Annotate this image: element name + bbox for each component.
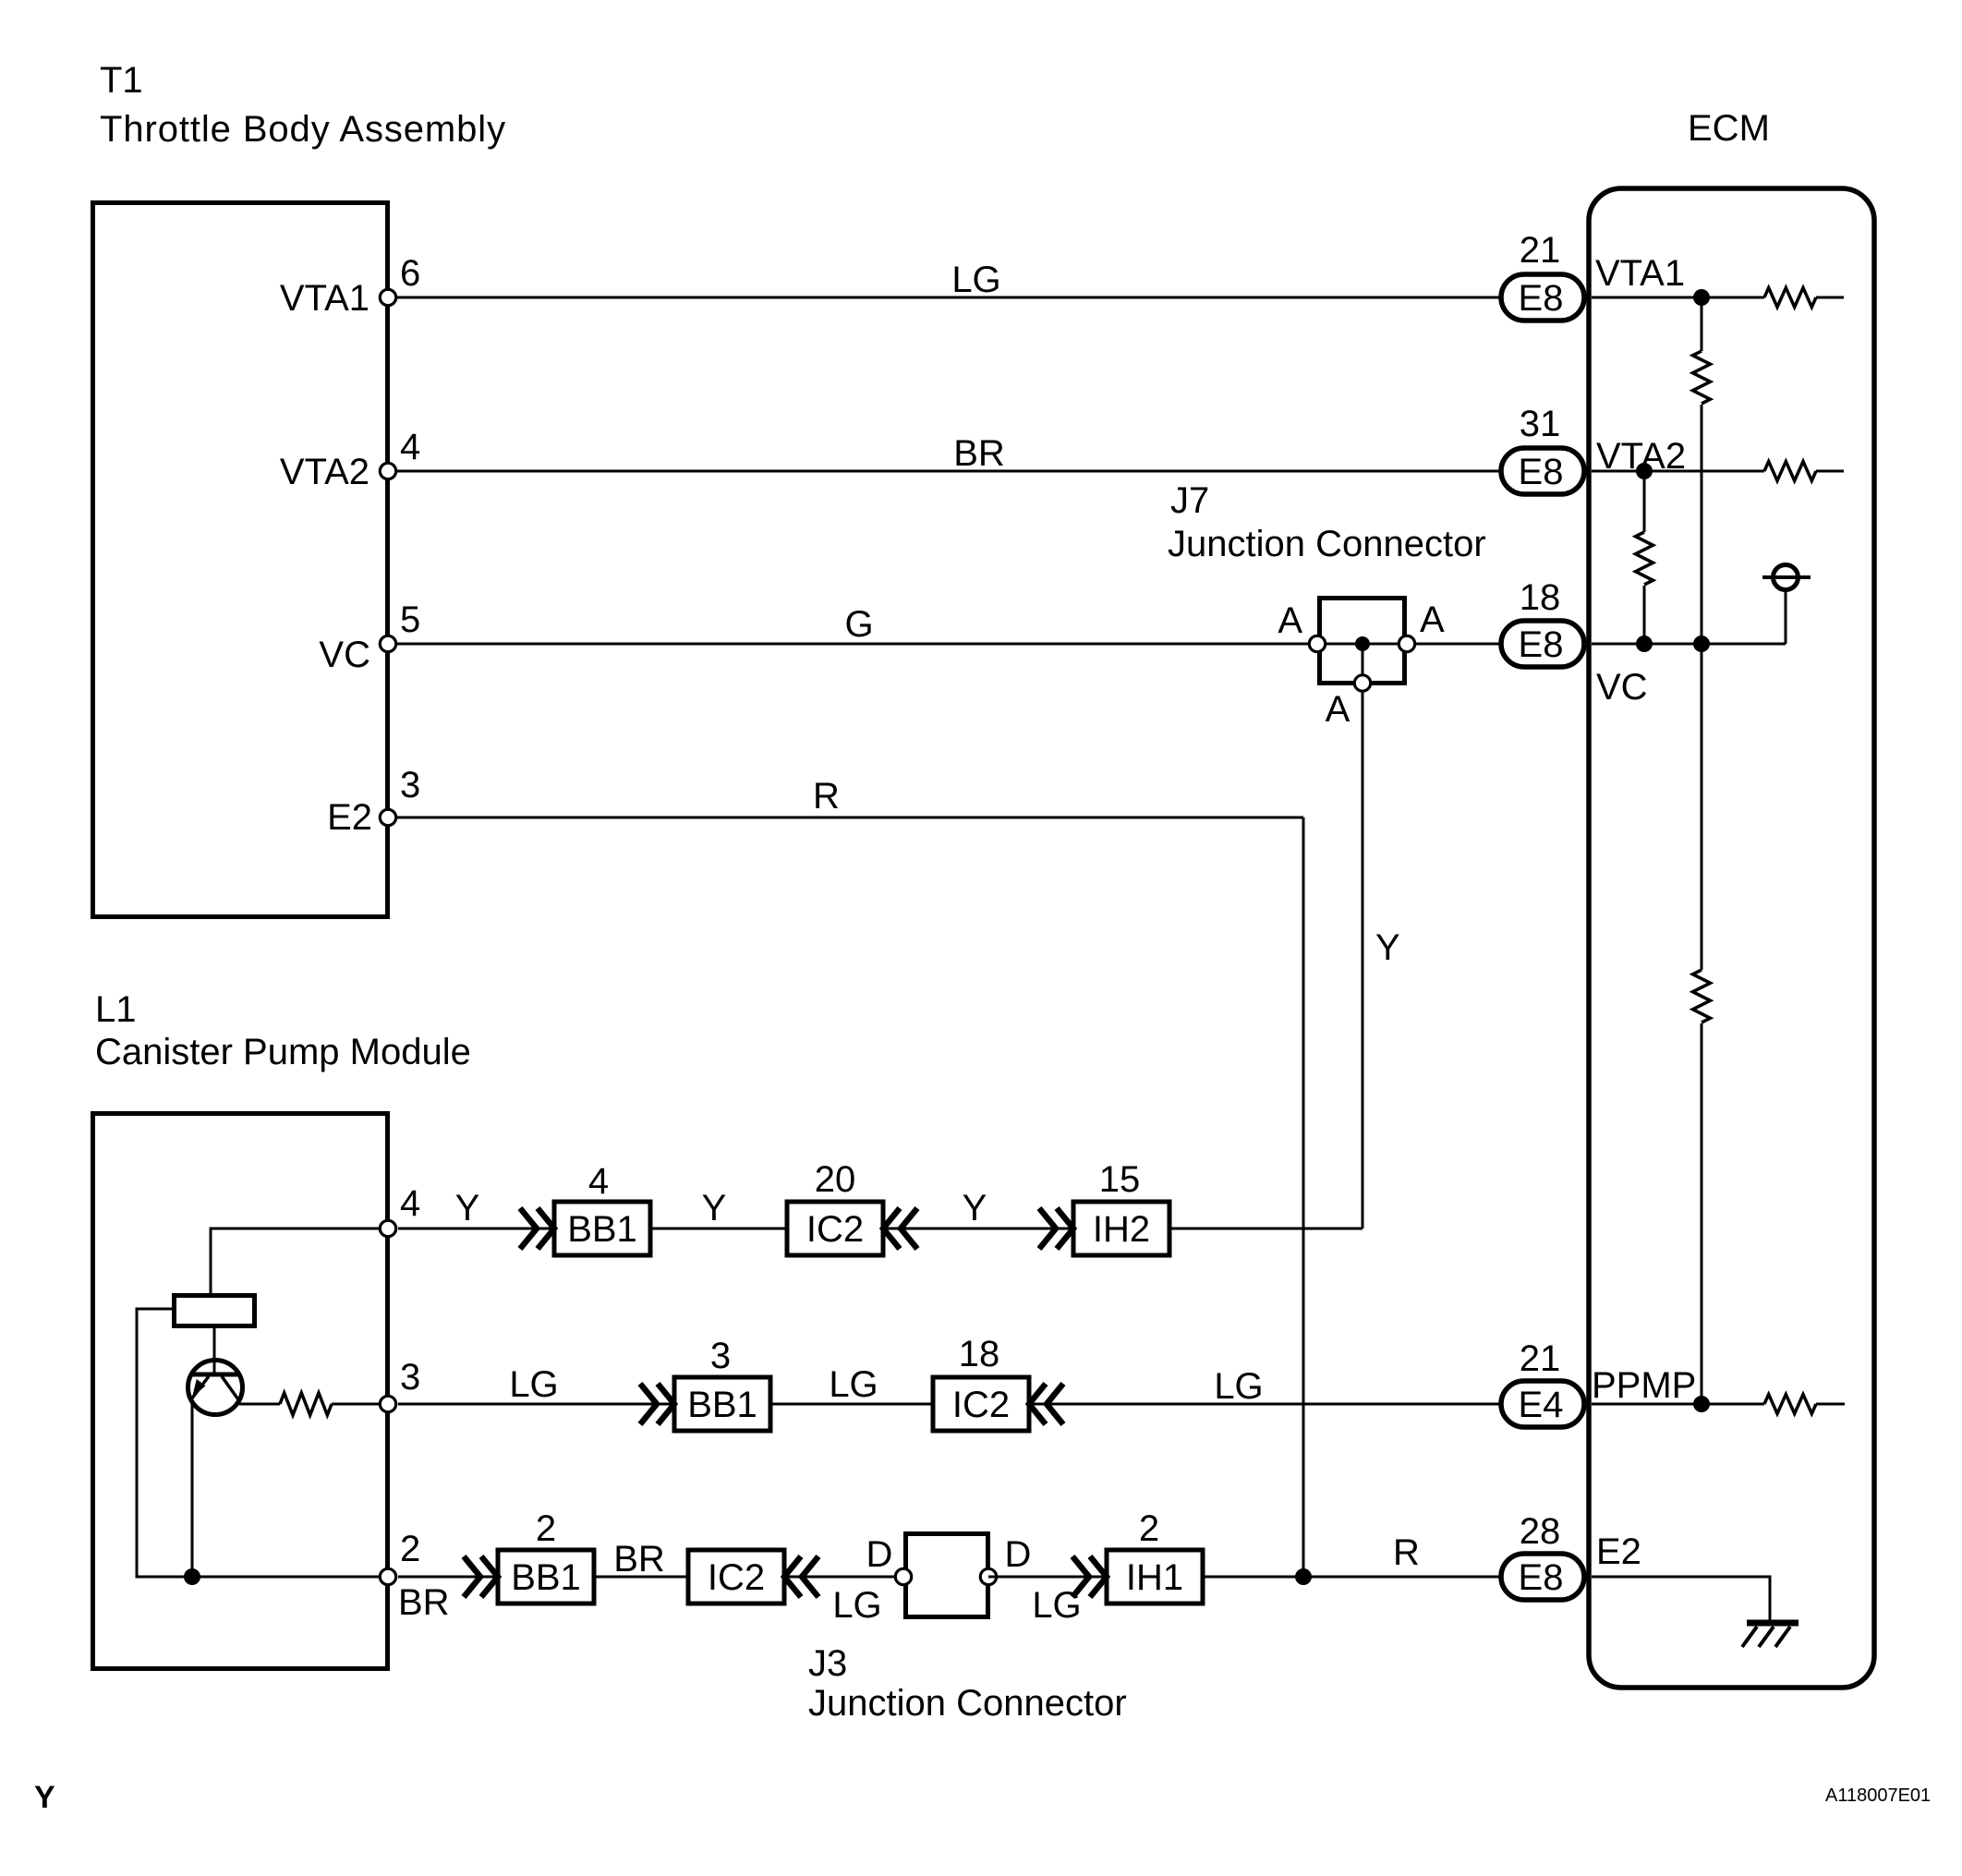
svg-text:PPMP: PPMP	[1592, 1365, 1696, 1406]
svg-text:D: D	[1005, 1534, 1032, 1575]
connector IH1	[1107, 1550, 1203, 1604]
svg-text:18: 18	[959, 1334, 1000, 1374]
svg-text:IH1: IH1	[1126, 1557, 1183, 1598]
svg-text:R: R	[813, 776, 840, 817]
svg-text:J3: J3	[808, 1643, 847, 1684]
svg-text:LG: LG	[829, 1364, 878, 1405]
svg-text:2: 2	[536, 1508, 556, 1549]
svg-text:T1: T1	[100, 60, 143, 101]
pump motor coil element	[175, 1296, 255, 1326]
svg-text:Junction Connector: Junction Connector	[1168, 524, 1486, 564]
wire LG pin3 to BB1	[398, 1403, 674, 1406]
chevrons out of IC2 (Y row)	[901, 1208, 917, 1249]
wire Y pin4 to BB1	[398, 1228, 554, 1230]
wire G from T1 pin 5 to J7	[388, 643, 1317, 646]
power source symbol	[1762, 565, 1811, 590]
resistor divider VTA2-VC	[1636, 532, 1653, 585]
svg-text:LG: LG	[509, 1364, 558, 1405]
resistor divider VTA1-VC	[1693, 351, 1711, 404]
wire resistor to pin 3	[332, 1403, 388, 1406]
wire BR BB1 to IC2	[594, 1576, 688, 1579]
resistor PPMP (ECM)	[1764, 1395, 1816, 1414]
wire BR from T1 pin 4 to E8-31	[388, 470, 1501, 473]
svg-text:VTA2: VTA2	[280, 452, 369, 492]
junction node VC/VTA2 divider	[1636, 635, 1653, 652]
svg-text:E8: E8	[1519, 1557, 1564, 1598]
svg-text:3: 3	[400, 1357, 420, 1398]
svg-text:E8: E8	[1519, 624, 1564, 665]
wire coil left lead	[137, 1309, 388, 1577]
svg-text:4: 4	[400, 427, 420, 467]
chevrons out of IC2 (BR row)	[802, 1556, 818, 1597]
resistor VTA2 pull-up (ECM)	[1764, 462, 1816, 481]
svg-text:VTA1: VTA1	[280, 278, 369, 319]
resistor L1 internal	[280, 1393, 332, 1415]
chevrons into IH1	[1072, 1556, 1089, 1597]
wire transistor collector	[239, 1403, 280, 1406]
wire VTA1 divider vertical upper	[1701, 297, 1703, 351]
wire L1 pin4 to coil	[211, 1228, 388, 1295]
svg-text:4: 4	[400, 1183, 420, 1224]
wire after PPMP resistor	[1816, 1403, 1845, 1406]
svg-text:LG: LG	[832, 1585, 881, 1626]
svg-text:3: 3	[710, 1336, 731, 1376]
wire BR pin2 to BB1	[398, 1576, 498, 1579]
svg-text:A: A	[1278, 600, 1302, 641]
J7 terminal circle bottom	[1354, 675, 1370, 691]
wire VC inside ECM	[1592, 643, 1786, 646]
svg-text:A: A	[1326, 689, 1350, 730]
svg-text:3: 3	[400, 765, 420, 805]
wire E2 inside ECM	[1592, 1577, 1770, 1620]
wire VTA1 divider vertical lower	[1701, 1023, 1703, 1404]
svg-text:R: R	[1393, 1532, 1420, 1573]
connector E8 pin 21	[1501, 274, 1584, 321]
svg-text:Junction Connector: Junction Connector	[808, 1683, 1127, 1724]
chevrons into BB1 (BR row)	[464, 1556, 480, 1597]
junction node PPMP/divider	[1693, 1396, 1710, 1412]
svg-text:28: 28	[1520, 1511, 1561, 1552]
svg-text:LG: LG	[951, 260, 1000, 300]
svg-text:Y: Y	[963, 1188, 987, 1228]
wire LG BB1 to IC2	[770, 1403, 933, 1406]
svg-text:31: 31	[1520, 404, 1561, 444]
wire R vertical to E2 row	[1302, 817, 1305, 1577]
pin terminal circle VTA1	[380, 289, 395, 305]
resistor divider VC-PPMP	[1693, 970, 1711, 1023]
svg-text:D: D	[866, 1534, 893, 1575]
connector E8 pin 31	[1501, 448, 1584, 494]
wire Y from J7 down to IH2 row	[1362, 644, 1364, 1228]
svg-text:BB1: BB1	[511, 1557, 581, 1598]
resistor VTA1 pull-up (ECM)	[1764, 288, 1816, 308]
wire R IH1 to E8-28	[1203, 1576, 1501, 1579]
svg-text:LG: LG	[1214, 1366, 1263, 1407]
wire PPMP inside ECM	[1592, 1403, 1764, 1406]
svg-text:Y: Y	[455, 1188, 480, 1228]
junction node VTA2/divider	[1636, 463, 1653, 479]
wire VTA1 inside ECM	[1592, 297, 1764, 299]
svg-text:2: 2	[400, 1529, 420, 1569]
svg-text:VC: VC	[319, 635, 370, 675]
wire LG IC2 to E4	[1029, 1403, 1501, 1406]
wire Y BB1 to IC2	[650, 1228, 787, 1230]
svg-text:BB1: BB1	[567, 1209, 637, 1250]
svg-text:Y: Y	[1375, 927, 1400, 968]
connector E8 pin 18	[1501, 621, 1584, 667]
chevrons into BB1 (LG row)	[640, 1384, 657, 1424]
svg-text:IC2: IC2	[708, 1557, 765, 1598]
pin terminal circle VC	[380, 635, 395, 651]
svg-text:BR: BR	[953, 433, 1005, 474]
svg-text:Y: Y	[702, 1188, 727, 1228]
connector E4 pin 21	[1501, 1381, 1584, 1427]
connector BB1 (Y row)	[554, 1202, 650, 1255]
svg-text:A: A	[1420, 599, 1445, 640]
ground symbol (ECM E2)	[1742, 1623, 1798, 1647]
J3 terminal circle left	[895, 1568, 911, 1584]
svg-text:A118007E01: A118007E01	[1825, 1785, 1931, 1806]
junction connector J7 box	[1320, 599, 1405, 684]
svg-text:IC2: IC2	[952, 1385, 1010, 1425]
wire Y IC2 to IH2	[883, 1228, 1073, 1230]
chevrons out of IC2 (LG row)	[1047, 1384, 1063, 1424]
connector IH2	[1073, 1202, 1169, 1255]
J7 internal junction dot	[1355, 636, 1370, 651]
wire VTA1 divider vertical middle	[1701, 405, 1703, 970]
wire transistor emitter down	[191, 1403, 194, 1577]
pin terminal circle L1-2	[380, 1568, 395, 1584]
svg-text:21: 21	[1520, 1338, 1561, 1379]
wire after VTA1 resistor	[1816, 297, 1844, 299]
wire R from T1 pin 3	[388, 817, 1303, 819]
chevrons into IH2	[1039, 1208, 1056, 1249]
svg-text:18: 18	[1520, 577, 1561, 618]
wire LG IC2 to J3	[784, 1576, 903, 1579]
svg-text:ECM: ECM	[1688, 108, 1770, 149]
chevrons into BB1 (Y row)	[520, 1208, 537, 1249]
svg-text:Y: Y	[34, 1780, 55, 1815]
pin terminal circle L1-4	[380, 1220, 395, 1236]
ECM box	[1589, 188, 1874, 1688]
svg-text:15: 15	[1099, 1159, 1141, 1200]
wire from J7 to E8-18	[1407, 643, 1501, 646]
svg-text:E8: E8	[1519, 278, 1564, 319]
wire VTA2 divider vertical lower	[1643, 586, 1646, 644]
svg-text:IH2: IH2	[1093, 1209, 1150, 1250]
J3 terminal circle right	[980, 1568, 996, 1584]
svg-text:21: 21	[1520, 230, 1561, 271]
svg-text:E2: E2	[1596, 1531, 1641, 1572]
wire Y IH2 to vertical	[1169, 1228, 1362, 1230]
junction node VC/VTA1 divider	[1693, 635, 1710, 652]
svg-text:E8: E8	[1519, 452, 1564, 492]
connector IC2 (LG row)	[933, 1377, 1029, 1431]
svg-text:BR: BR	[398, 1582, 450, 1623]
connector BB1 (BR row)	[498, 1550, 594, 1604]
wire through J7	[1317, 643, 1407, 646]
wire VTA2 inside ECM	[1592, 470, 1764, 473]
svg-text:Throttle Body Assembly: Throttle Body Assembly	[100, 109, 506, 150]
svg-text:G: G	[844, 604, 873, 645]
junction node R vertical/E2 wire	[1295, 1568, 1312, 1585]
connector IC2 (Y row)	[787, 1202, 883, 1255]
svg-text:VTA1: VTA1	[1595, 253, 1685, 294]
pin terminal circle E2	[380, 809, 395, 825]
svg-text:E4: E4	[1519, 1385, 1564, 1425]
svg-text:L1: L1	[95, 989, 137, 1030]
connector BB1 (LG row)	[674, 1377, 770, 1431]
junction node emitter/pin2 wire	[184, 1568, 200, 1585]
svg-text:VC: VC	[1596, 667, 1648, 708]
connector IC2 (BR row)	[688, 1550, 784, 1604]
pin terminal circle L1-3	[380, 1396, 395, 1411]
junction connector J3 box	[906, 1534, 988, 1617]
connector E8 pin 28	[1501, 1554, 1584, 1600]
svg-text:IC2: IC2	[806, 1209, 864, 1250]
svg-text:Canister Pump Module: Canister Pump Module	[95, 1032, 471, 1072]
svg-text:4: 4	[588, 1161, 609, 1202]
wire VTA2 divider vertical upper	[1643, 471, 1646, 532]
J7 terminal circle right	[1399, 635, 1414, 651]
svg-text:20: 20	[815, 1159, 856, 1200]
svg-text:J7: J7	[1170, 480, 1209, 521]
svg-text:6: 6	[400, 253, 420, 294]
svg-text:2: 2	[1139, 1508, 1159, 1549]
wire stub to power symbol	[1785, 591, 1787, 644]
component T1 throttle body assembly box	[93, 203, 388, 917]
wire LG from T1 pin 6 to E8-21	[388, 297, 1501, 299]
transistor pump driver (L1)	[188, 1361, 243, 1415]
wire J3 to IH1	[988, 1576, 1107, 1579]
wire after VTA2 resistor	[1816, 470, 1844, 473]
junction node VTA1/divider	[1693, 289, 1710, 306]
wire coil to transistor base	[213, 1326, 216, 1374]
svg-text:BR: BR	[613, 1539, 665, 1579]
J7 terminal circle left	[1309, 635, 1325, 651]
pin terminal circle VTA2	[380, 463, 395, 478]
svg-text:5: 5	[400, 599, 420, 640]
svg-text:BB1: BB1	[687, 1385, 757, 1425]
component L1 canister pump module box	[93, 1114, 388, 1669]
svg-text:E2: E2	[327, 797, 372, 838]
